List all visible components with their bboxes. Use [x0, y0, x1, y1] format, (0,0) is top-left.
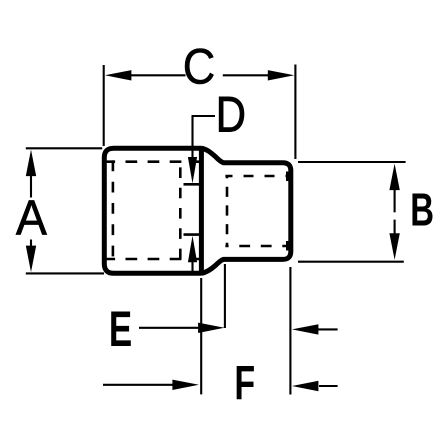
svg-text:D: D	[216, 86, 246, 143]
svg-text:E: E	[109, 302, 132, 358]
svg-text:C: C	[183, 39, 215, 95]
svg-text:B: B	[410, 184, 434, 236]
svg-text:A: A	[16, 192, 47, 246]
svg-text:F: F	[234, 355, 255, 409]
